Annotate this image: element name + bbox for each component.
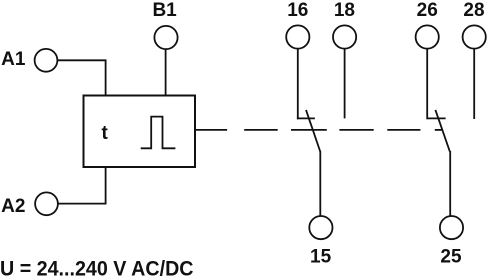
- svg-text:18: 18: [334, 0, 355, 21]
- svg-text:B1: B1: [152, 0, 177, 21]
- svg-text:28: 28: [463, 0, 484, 21]
- svg-text:U = 24...240 V AC/DC: U = 24...240 V AC/DC: [0, 258, 194, 278]
- svg-text:A1: A1: [1, 49, 26, 70]
- svg-text:A2: A2: [1, 196, 25, 217]
- svg-text:15: 15: [310, 247, 332, 268]
- svg-text:26: 26: [417, 0, 438, 21]
- svg-text:16: 16: [287, 0, 308, 21]
- svg-text:25: 25: [440, 247, 462, 268]
- svg-text:t: t: [102, 123, 109, 144]
